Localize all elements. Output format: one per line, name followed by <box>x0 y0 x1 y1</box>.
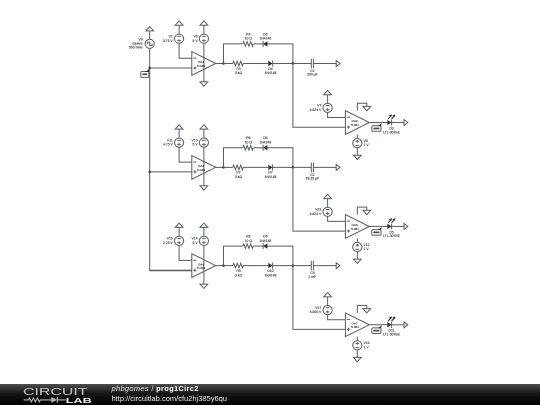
label R7 3 kΩ <box>235 171 243 179</box>
wire C1 to output flag <box>313 63 336 65</box>
wire V15 to OA6 - input <box>179 246 192 261</box>
svg-text:3 kΩ: 3 kΩ <box>235 71 243 75</box>
junction at node Vin <box>148 67 151 70</box>
label OA4 TL081 <box>197 164 206 172</box>
node label Vout1 <box>372 123 382 131</box>
wire input rail to OA6 + input <box>150 269 192 271</box>
svg-text:1N4148: 1N4148 <box>259 37 271 41</box>
wire flag to V11 <box>178 129 180 138</box>
junction coupling node <box>292 62 295 65</box>
label D11 LTL-307EE <box>383 329 401 337</box>
wire output node to R7 <box>224 166 233 168</box>
junction OA6 output node <box>222 264 225 267</box>
ground flag below OA1 <box>200 82 208 86</box>
flag above source V11 <box>175 125 183 129</box>
svg-text:500 mHz: 500 mHz <box>129 46 143 50</box>
LED D11 (LTL-307EE) <box>387 317 395 328</box>
label OA7 TL081 <box>350 321 359 329</box>
wire C2 to output flag <box>313 166 336 168</box>
diode D6 (1N4148) <box>263 41 267 47</box>
voltage source V8 (1 V) <box>353 139 362 148</box>
wire LED D5 to output flag <box>392 225 404 227</box>
svg-text:1 V: 1 V <box>364 143 370 147</box>
svg-text:1N4148: 1N4148 <box>265 71 277 75</box>
label V8 1 V <box>364 139 370 147</box>
wire coupling node to C3 <box>293 265 312 267</box>
wire R6 to D8 <box>253 147 263 149</box>
capacitor C3 <box>311 261 313 271</box>
ground flag below V8 <box>353 155 361 159</box>
wire coupling node to OA7 + input <box>293 266 346 330</box>
flag (down) at OA5 V+ pin <box>363 210 371 214</box>
svg-text:4.500 V: 4.500 V <box>310 310 322 314</box>
output flag after C2 <box>336 164 340 170</box>
label C2 33.33 µF <box>306 173 319 181</box>
wire OA6 output <box>216 265 224 267</box>
junction coupling node <box>292 166 295 169</box>
flag (power) above source V9 <box>146 27 154 31</box>
svg-text:4.524 V: 4.524 V <box>310 108 322 112</box>
wire V9 to node Vin <box>149 48 151 68</box>
capacitor C1 <box>311 59 313 68</box>
node label Vout2 <box>372 227 382 235</box>
svg-text:TL081: TL081 <box>197 168 206 172</box>
svg-text:1N4148: 1N4148 <box>259 239 271 243</box>
wire flag to V15 <box>178 227 180 236</box>
resistor R3 <box>233 61 244 66</box>
wire OA1 output <box>216 63 224 65</box>
label C1 200 µF <box>307 69 318 77</box>
wire flag to V6 <box>203 25 205 34</box>
wire D4 to coupling node <box>273 63 293 65</box>
svg-text:TL081: TL081 <box>350 325 359 329</box>
voltage source V14 (5 V) <box>199 236 208 245</box>
node label Vout3 <box>372 325 382 333</box>
wire OA7 output to LED D11 <box>369 324 387 326</box>
label D7 1N4148 <box>265 171 277 179</box>
wire OA7 V- pin to V16 <box>356 337 358 341</box>
svg-text:LTL-307EE: LTL-307EE <box>383 333 401 337</box>
label R8 10 Ω <box>245 235 253 243</box>
wire D8 down to output coupling node <box>268 148 293 168</box>
wire OA7 V+ pin to flag <box>357 305 367 313</box>
op-amp OA6 (TL081) <box>192 254 216 278</box>
flag (down) at OA2 V+ pin <box>363 106 371 110</box>
label R4 10 Ω <box>245 32 253 40</box>
label OA5 TL081 <box>350 223 359 231</box>
label D4 1N4148 <box>265 67 277 75</box>
voltage source V11 (4.75 V) <box>175 138 184 147</box>
output flag Vout2 <box>404 223 408 229</box>
ground flag below V16 <box>353 357 361 361</box>
label V14 5 V <box>192 237 199 245</box>
label V13 4.524 V <box>310 208 322 216</box>
svg-text:3 kΩ: 3 kΩ <box>235 273 243 277</box>
resistor R7 <box>233 165 244 170</box>
label R6 10 Ω <box>245 136 253 144</box>
wire flag to V7 <box>327 95 329 104</box>
wire output node up to R6 <box>224 148 243 168</box>
label D8 1N4148 <box>259 136 271 144</box>
label OA6 TL081 <box>197 262 206 270</box>
label V10 5 V <box>192 138 199 146</box>
svg-text:2 mF: 2 mF <box>309 275 317 279</box>
wire V1 to OA1 - input <box>179 43 192 58</box>
wire flag to V9 <box>149 31 151 39</box>
label D5 LTL-307EE <box>383 230 401 238</box>
flag (down) at OA7 V+ pin <box>363 309 371 313</box>
svg-text:5 V: 5 V <box>193 241 199 245</box>
svg-text:10 Ω: 10 Ω <box>245 239 253 243</box>
junction input rail / OA4 + input <box>148 171 151 174</box>
junction OA1 output node <box>222 62 225 65</box>
label R3 3 kΩ <box>235 67 243 75</box>
resistor R4 <box>243 42 254 47</box>
voltage source V10 (5 V) <box>199 138 208 147</box>
wire V11 to OA4 - input <box>179 147 192 162</box>
junction coupling node <box>292 264 295 267</box>
svg-text:LAB: LAB <box>66 396 93 405</box>
voltage source V15 (2.25 V) <box>175 236 184 245</box>
svg-text:1N4148: 1N4148 <box>265 175 277 179</box>
svg-text:TL081: TL081 <box>197 266 206 270</box>
label V1 3.75 V <box>163 35 174 43</box>
svg-text:1 V: 1 V <box>364 247 370 251</box>
svg-text:LTL-307EE: LTL-307EE <box>383 234 401 238</box>
wire coupling node to C1 <box>293 63 312 65</box>
op-amp OA4 (TL081) <box>192 156 216 180</box>
wire flag to V14 <box>203 227 205 236</box>
label D10 1N4148 <box>265 269 277 277</box>
label D6 1N4148 <box>259 32 271 40</box>
wire flag to V10 <box>203 129 205 138</box>
wire D10 to coupling node <box>273 265 293 267</box>
wire OA5 V+ pin to flag <box>357 207 367 215</box>
svg-text:1 V: 1 V <box>364 345 370 349</box>
svg-text:1N4148: 1N4148 <box>259 141 271 145</box>
svg-text:3 kΩ: 3 kΩ <box>235 175 243 179</box>
svg-text:http://circuitlab.com/cfu2hj38: http://circuitlab.com/cfu2hj385y6qu <box>112 394 227 403</box>
voltage source V6 (5 V) <box>199 34 208 43</box>
svg-text:2.25 V: 2.25 V <box>163 241 174 245</box>
label OA1 TL081 <box>197 60 206 68</box>
voltage source V16 (1 V) <box>353 341 362 350</box>
wire coupling node to C2 <box>293 166 312 168</box>
flag above source V6 <box>200 21 208 25</box>
label V12 1 V <box>364 243 370 251</box>
resistor R8 <box>243 244 254 249</box>
wire R8 to D9 <box>253 245 263 247</box>
wire output node up to R4 <box>224 44 243 64</box>
svg-text:LTL-307EE: LTL-307EE <box>383 130 401 134</box>
voltage source V7 (4.524 V) <box>323 103 332 112</box>
flag above source V15 <box>175 223 183 227</box>
svg-text:phbgomes / prog1Circ2: phbgomes / prog1Circ2 <box>111 384 199 393</box>
LED D3 (LTL-307EE) <box>387 115 395 126</box>
svg-text:5 V: 5 V <box>193 39 199 43</box>
output flag after C1 <box>336 61 340 67</box>
label V6 5 V <box>193 35 199 43</box>
resistor R6 <box>243 146 254 151</box>
svg-text:4.75 V: 4.75 V <box>163 143 174 147</box>
wire V12 to ground flag <box>356 252 358 260</box>
wire V17 to OA7 - input <box>328 315 346 320</box>
voltage source V17 (4.500 V) <box>323 306 332 315</box>
flag above source V13 <box>324 194 332 198</box>
label V16 1 V <box>364 341 370 349</box>
voltage source V12 (1 V) <box>353 242 362 251</box>
svg-text:10 Ω: 10 Ω <box>245 37 253 41</box>
label D3 LTL-307EE <box>383 127 401 135</box>
label D9 1N4148 <box>259 235 271 243</box>
diode D7 (1N4148) <box>268 164 272 170</box>
op-amp OA2 (TL081) <box>345 111 369 135</box>
flag above source V17 <box>324 293 332 297</box>
wire output node up to R8 <box>224 246 243 266</box>
wire flag to V1 <box>178 25 180 34</box>
svg-text:200 µF: 200 µF <box>307 73 318 77</box>
diode D9 (1N4148) <box>263 243 267 249</box>
wire output node to R3 <box>224 63 233 65</box>
ground flag below OA6 <box>200 284 208 288</box>
LED D5 (LTL-307EE) <box>387 218 395 229</box>
svg-text:TL081: TL081 <box>350 123 359 127</box>
wire OA2 output to LED D3 <box>369 122 387 124</box>
wire LED D3 to output flag <box>392 122 404 124</box>
op-amp OA7 (TL081) <box>345 313 369 337</box>
wire R9 to D10 <box>243 265 268 267</box>
output flag after C3 <box>336 263 340 269</box>
node label Vin <box>141 69 150 78</box>
label V17 4.500 V <box>310 306 322 314</box>
ground flag below V12 <box>353 259 361 263</box>
diode D10 (1N4148) <box>268 263 272 269</box>
output flag Vout1 <box>404 120 408 126</box>
wire OA2 V+ pin to flag <box>357 103 367 111</box>
svg-text:TL081: TL081 <box>350 227 359 231</box>
label C3 2 mF <box>309 271 317 279</box>
CircuitLab logo schematic glyph (resistor + diode) <box>24 397 66 403</box>
wire input rail to OA4 + input <box>150 171 192 173</box>
label V15 2.25 V <box>163 237 174 245</box>
svg-text:4.524 V: 4.524 V <box>310 212 322 216</box>
wire V10 through OA4 power pins to ground flag <box>203 147 205 186</box>
label OA2 TL081 <box>350 119 359 127</box>
wire D9 down to output coupling node <box>268 246 293 266</box>
wire input rail node Vin down to channel 3 + input <box>150 68 192 271</box>
wire OA5 output to LED D5 <box>369 225 387 227</box>
wire D6 down to output coupling node <box>268 44 293 64</box>
flag above source V10 <box>200 125 208 129</box>
label V7 4.524 V <box>310 104 322 112</box>
flag above source V1 <box>175 21 183 25</box>
svg-text:5 V: 5 V <box>193 143 199 147</box>
wire OA4 output <box>216 166 224 168</box>
label R9 3 kΩ <box>235 269 243 277</box>
wire R7 to D7 <box>243 166 268 168</box>
label V9 square 500 mHz <box>129 38 143 50</box>
capacitor C2 <box>311 163 313 173</box>
wire V8 to ground flag <box>356 148 358 156</box>
flag above source V7 <box>324 90 332 94</box>
wire C3 to output flag <box>313 265 336 267</box>
flag above source V14 <box>200 223 208 227</box>
svg-text:TL081: TL081 <box>197 64 206 68</box>
wire output node to R9 <box>224 265 233 267</box>
output flag Vout3 <box>404 322 408 328</box>
wire coupling node to OA2 + input <box>293 64 346 128</box>
diode D8 (1N4148) <box>263 145 267 151</box>
junction OA4 output node <box>222 166 225 169</box>
wire V14 through OA6 power pins to ground flag <box>203 246 205 285</box>
voltage source V9 (square wave) <box>145 39 154 48</box>
ground flag below OA4 <box>200 186 208 190</box>
svg-text:33.33 µF: 33.33 µF <box>306 177 319 181</box>
wire V16 to ground flag <box>356 350 358 358</box>
wire R4 to D6 <box>253 43 263 45</box>
wire OA5 V- pin to V12 <box>356 238 358 242</box>
wire flag to V17 <box>327 297 329 306</box>
svg-text:10 Ω: 10 Ω <box>245 141 253 145</box>
op-amp OA5 (TL081) <box>345 215 369 239</box>
svg-text:1N4148: 1N4148 <box>265 273 277 277</box>
wire flag to V13 <box>327 199 329 208</box>
svg-text:3.75 V: 3.75 V <box>163 39 174 43</box>
voltage source V13 (4.524 V) <box>323 207 332 216</box>
wire node Vin to OA1 + input <box>150 67 192 69</box>
wire LED D11 to output flag <box>392 324 404 326</box>
resistor R9 <box>233 263 244 268</box>
diode D4 (1N4148) <box>268 60 272 66</box>
wire R3 to D4 <box>243 63 268 65</box>
wire D7 to coupling node <box>273 166 293 168</box>
wire V7 to OA2 - input <box>328 113 346 118</box>
voltage source V1 (3.75 V) <box>175 34 184 43</box>
wire V13 to OA5 - input <box>328 216 346 221</box>
wire V6 through OA1 power pins to ground flag <box>203 43 205 82</box>
label V11 4.75 V <box>163 138 174 146</box>
wire OA2 V- pin to V8 <box>356 134 358 138</box>
op-amp OA1 (TL081) <box>192 52 216 76</box>
wire coupling node to OA5 + input <box>293 167 346 231</box>
